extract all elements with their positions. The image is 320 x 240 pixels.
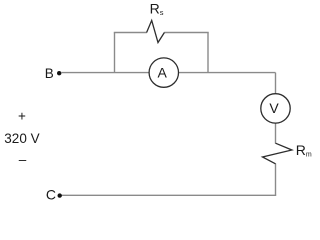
svg-text:A: A bbox=[158, 65, 168, 81]
wire shunt loop left vertical bbox=[114, 33, 116, 73]
resistor Rs bbox=[147, 20, 165, 42]
wire bottom run to C terminal bbox=[62, 194, 277, 196]
svg-text:C: C bbox=[46, 187, 56, 203]
wire voltmeter to resistor Rm bbox=[275, 124, 277, 144]
wire B terminal to ammeter bbox=[62, 72, 149, 74]
resistor Rm bbox=[263, 143, 292, 164]
node B terminal dot bbox=[57, 71, 61, 75]
svg-text:–: – bbox=[19, 152, 27, 167]
svg-text:V: V bbox=[269, 100, 279, 116]
svg-text:B: B bbox=[45, 66, 54, 81]
wire resistor Rm to bottom wire bbox=[275, 164, 277, 196]
wire shunt loop top right segment bbox=[164, 32, 209, 34]
svg-text:+: + bbox=[18, 108, 26, 123]
wire ammeter to top-right corner bbox=[179, 72, 276, 74]
voltmeter V1 circle bbox=[261, 94, 290, 123]
node C terminal dot bbox=[58, 193, 62, 197]
wire right vertical down to voltmeter bbox=[275, 73, 277, 94]
wire shunt loop right vertical bbox=[207, 33, 209, 73]
svg-text:320 V: 320 V bbox=[4, 131, 39, 146]
wire shunt loop top left segment bbox=[114, 32, 147, 34]
ammeter A1 circle bbox=[149, 58, 178, 87]
